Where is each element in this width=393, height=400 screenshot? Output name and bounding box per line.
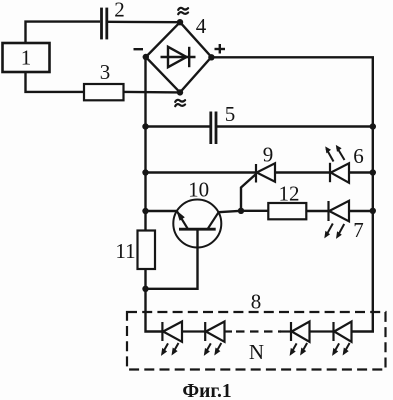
svg-text:3: 3 [100, 60, 111, 84]
svg-text:6: 6 [353, 144, 364, 168]
svg-text:1: 1 [21, 46, 32, 70]
svg-text:Фиг.1: Фиг.1 [182, 381, 231, 400]
svg-text:2: 2 [114, 0, 125, 21]
svg-text:4: 4 [196, 14, 207, 38]
svg-text:8: 8 [251, 290, 262, 314]
svg-text:5: 5 [225, 102, 236, 126]
svg-text:11: 11 [115, 239, 135, 263]
svg-text:N: N [249, 340, 264, 364]
svg-text:10: 10 [188, 177, 209, 201]
svg-text:12: 12 [279, 181, 300, 205]
svg-text:7: 7 [353, 218, 364, 242]
svg-text:9: 9 [263, 143, 274, 167]
